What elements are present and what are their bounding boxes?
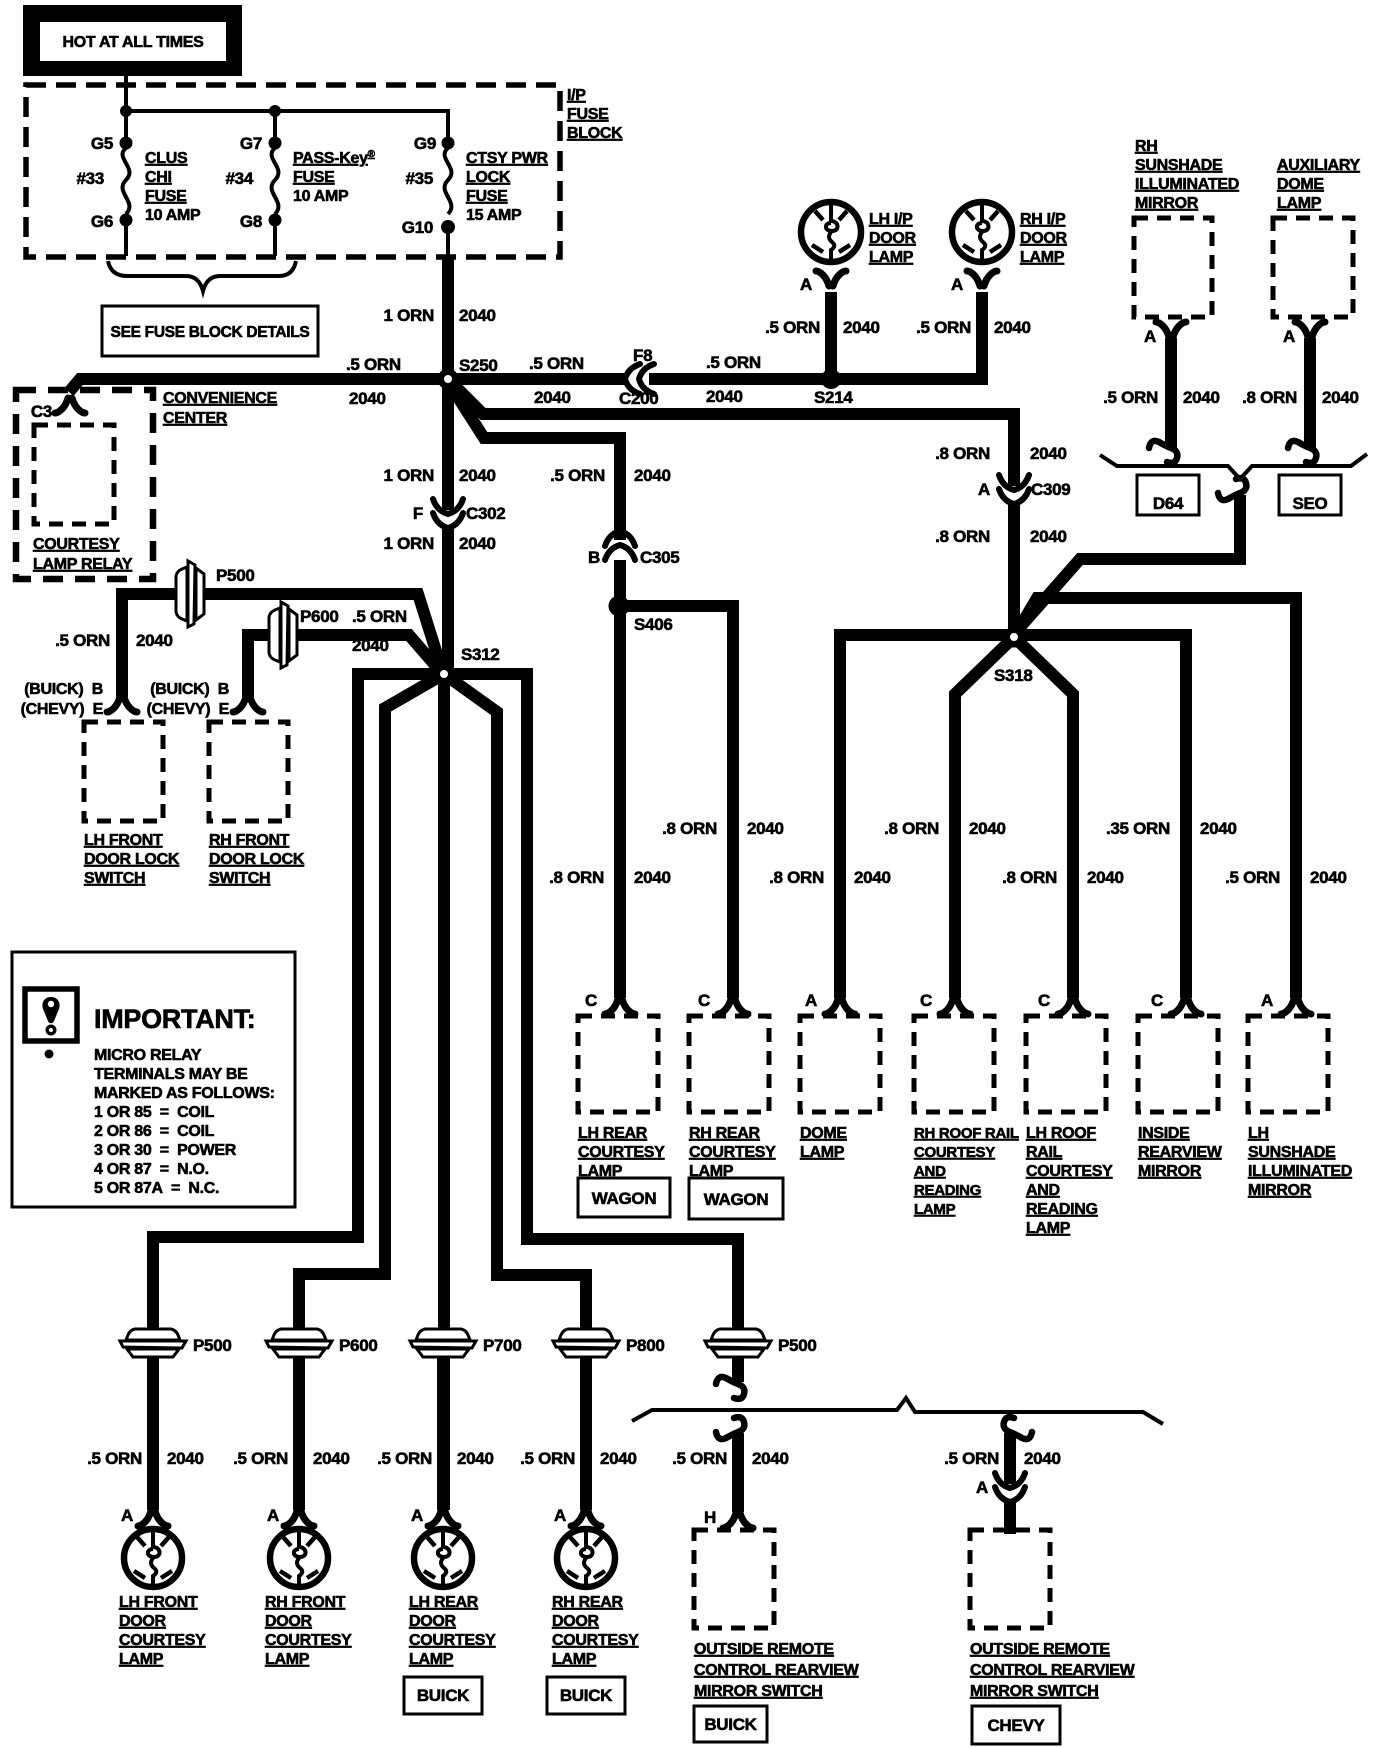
label OUTSIDE REMOTE CONTROL REARVIEW MIRROR SWITCH (BUICK) [694,1641,860,1700]
pass-through P500 (courtesy feeder) [120,1329,186,1357]
svg-text:2040: 2040 [854,868,891,887]
svg-text:2040: 2040 [752,1449,789,1468]
svg-text:2040: 2040 [313,1449,350,1468]
WAGON tag (LH rear lamp) [578,1178,670,1217]
svg-text:C302: C302 [466,504,505,523]
svg-text:RAIL: RAIL [1026,1144,1063,1161]
svg-text:LAMP: LAMP [119,1651,164,1668]
svg-text:.8 ORN: .8 ORN [769,868,824,887]
svg-text:IMPORTANT:: IMPORTANT: [94,1004,255,1034]
svg-text:10 AMP: 10 AMP [145,207,201,224]
svg-text:C: C [698,991,710,1010]
BUICK tag (RH rear door courtesy lamp) [547,1677,625,1714]
svg-text:INSIDE: INSIDE [1138,1125,1190,1142]
bus wire inside fuse block [126,111,448,137]
svg-text:(CHEVY) E: (CHEVY) E [147,701,230,718]
dome lamp box [800,1016,880,1112]
wire S214 up to LH I/P door lamp [825,292,837,379]
svg-text:FUSE: FUSE [466,188,508,205]
svg-text:A: A [805,991,817,1010]
svg-text:(BUICK) B: (BUICK) B [24,681,103,698]
svg-text:SWITCH: SWITCH [84,870,145,887]
IMPORTANT micro relay note box [12,952,295,1207]
svg-text:2 OR 86 = COIL: 2 OR 86 = COIL [94,1123,215,1140]
svg-text:.5 ORN: .5 ORN [706,353,761,372]
label LH sunshade illuminated mirror [1248,1125,1352,1199]
wire to connector of CHEVY mirror switch [1004,1433,1016,1484]
LH rear courtesy lamp box [578,1016,658,1112]
svg-text:A: A [800,275,812,294]
connector pin A of LH rear door courtesy lamp [428,1511,458,1526]
wire S250 to C302 [442,384,454,510]
LH sunshade illuminated mirror box [1248,1016,1328,1112]
auxiliary dome lamp option box [1273,218,1353,317]
label LH front door courtesy lamp text [119,1594,206,1668]
svg-text:COURTESY: COURTESY [119,1632,206,1649]
wire aux dome lamp to SEO brace [1304,338,1316,448]
junction on bus at fuse #33 [120,105,132,117]
svg-text:G8: G8 [240,212,262,231]
svg-text:LAMP: LAMP [409,1651,454,1668]
svg-text:A: A [267,1506,279,1525]
wire S312 to P500 courtesy feeder [153,674,444,1510]
label RH rear door courtesy lamp text [552,1594,639,1668]
svg-text:S214: S214 [814,388,853,407]
svg-text:.8 ORN: .8 ORN [935,444,990,463]
svg-text:.5 ORN: .5 ORN [1225,868,1280,887]
svg-text:2040: 2040 [349,389,386,408]
label I/P FUSE BLOCK [567,87,623,142]
svg-text:LH FRONT: LH FRONT [119,1594,198,1611]
svg-text:LAMP: LAMP [689,1163,734,1180]
svg-text:F: F [413,504,423,523]
connector pin A of RH rear door courtesy lamp [571,1511,601,1526]
svg-text:REARVIEW: REARVIEW [1138,1144,1223,1161]
svg-text:2040: 2040 [136,631,173,650]
svg-text:.8 ORN: .8 ORN [1242,388,1297,407]
pass-through P800 (courtesy feeder) [553,1329,619,1357]
connector pin A of RH sunshade mirror [1156,322,1186,337]
svg-text:S318: S318 [994,666,1033,685]
svg-text:.5 ORN: .5 ORN [672,1449,727,1468]
hook above option brace (BUICK switch) [716,1377,744,1399]
svg-text:DOOR: DOOR [1020,230,1068,247]
connector A of CHEVY mirror switch [995,1473,1025,1502]
fuse #35 element [445,148,452,214]
LH I/P door lamp [801,202,861,262]
option tag SEO [1279,475,1341,515]
wire C302 to S312 [442,527,454,668]
svg-text:DOME: DOME [800,1125,847,1142]
label RH I/P DOOR LAMP [1020,211,1068,266]
svg-text:SEE FUSE BLOCK DETAILS: SEE FUSE BLOCK DETAILS [111,324,310,341]
pass-through P700 (courtesy feeder) [410,1329,476,1357]
svg-text:BUICK: BUICK [704,1715,757,1734]
wire S406 to LH rear courtesy lamp [614,612,626,998]
svg-text:AND: AND [1026,1182,1060,1199]
svg-text:COURTESY: COURTESY [689,1144,776,1161]
svg-text:2040: 2040 [1183,388,1220,407]
svg-text:OUTSIDE REMOTE: OUTSIDE REMOTE [694,1641,834,1658]
pin dot G6 [120,214,133,227]
label LH FRONT DOOR LOCK SWITCH [84,832,180,887]
pin dot G5 [120,137,133,150]
svg-text:MICRO RELAY: MICRO RELAY [94,1047,202,1064]
hook at option feed top [1218,478,1246,500]
svg-text:LAMP RELAY: LAMP RELAY [33,556,133,573]
svg-text:2040: 2040 [167,1449,204,1468]
svg-text:2040: 2040 [1200,819,1237,838]
pass-through P600 (courtesy feeder) [266,1329,332,1357]
svg-text:.5 ORN: .5 ORN [346,355,401,374]
label dome lamp [800,1125,847,1161]
svg-text:DOOR: DOOR [119,1613,167,1630]
wire S318 to LH roof rail lamp [1014,637,1073,998]
svg-text:BLOCK: BLOCK [567,125,623,142]
thin wire G10 to fuse block border [446,227,450,256]
pass-through P500 (mirror switch feeder) [705,1329,771,1357]
connector pin B/E of RH front door lock switch [233,697,263,712]
svg-text:G9: G9 [414,134,436,153]
connector pin B/E of LH front door lock switch [107,697,137,712]
svg-text:CENTER: CENTER [163,410,228,427]
pass-through P500 (lock branch) [176,561,204,627]
wire to BUICK mirror switch [732,1433,744,1512]
svg-text:FUSE: FUSE [293,169,335,186]
pin label (BUICK) B (CHEVY) E - RH [147,681,230,718]
svg-text:P500: P500 [216,566,255,585]
connector pin A of RH I/P door lamp [967,271,997,286]
svg-text:DOOR: DOOR [552,1613,600,1630]
svg-text:P700: P700 [483,1336,522,1355]
svg-text:PASS-Key®: PASS-Key® [293,149,376,167]
svg-text:P500: P500 [193,1336,232,1355]
wire P500 to LH front door courtesy lamp [147,1358,159,1510]
HOT AT ALL TIMES power label [23,5,242,76]
svg-text:COURTESY: COURTESY [914,1144,995,1161]
svg-text:CONTROL REARVIEW: CONTROL REARVIEW [970,1662,1136,1679]
svg-text:C: C [1151,991,1163,1010]
svg-text:.5 ORN: .5 ORN [520,1449,575,1468]
svg-text:15 AMP: 15 AMP [466,207,522,224]
label fuse #34 PASS-Key FUSE 10 AMP [293,149,376,205]
splice S312 [434,664,455,685]
connector pin C of LH roof rail courtesy and reading lamp [1058,999,1088,1014]
CHEVY outside remote control rearview mirror switch box [970,1530,1050,1628]
wire below fuse #34 [273,226,277,256]
label inside rearview mirror [1138,1125,1223,1180]
svg-text:C: C [585,991,597,1010]
connector pin A of LH I/P door lamp [816,271,846,286]
wire from hot feed to fuse bus [124,76,128,111]
LH roof rail courtesy and reading lamp box [1026,1016,1106,1112]
I/P fuse block outline [26,85,560,257]
label LH rear courtesy lamp [578,1125,665,1180]
svg-text:P500: P500 [778,1336,817,1355]
svg-text:COURTESY: COURTESY [265,1632,352,1649]
wire S250 to courtesy lamp relay [69,379,448,392]
svg-text:.5 ORN: .5 ORN [916,318,971,337]
svg-text:.5 ORN: .5 ORN [529,354,584,373]
svg-text:A: A [976,1478,988,1497]
wire S406 to RH rear courtesy lamp [620,606,733,998]
svg-text:MIRROR: MIRROR [1248,1182,1312,1199]
pin dot G9 [442,137,455,150]
pin dot G10 [441,220,455,234]
splice S250 [438,369,459,390]
wire into CHEVY mirror switch [1004,1501,1016,1534]
svg-text:AND: AND [914,1163,946,1180]
svg-text:.5 ORN: .5 ORN [233,1449,288,1468]
svg-text:BUICK: BUICK [560,1686,613,1705]
label LH I/P DOOR LAMP [869,211,917,266]
wire P600 branch to S312 [248,635,441,697]
option brace (BUICK/CHEVY outside mirror) [632,1398,1163,1424]
svg-text:S312: S312 [461,645,500,664]
wire S318 to inside rearview mirror [1014,635,1186,998]
connector pin A of RH front door courtesy lamp [284,1511,314,1526]
svg-text:DOOR: DOOR [265,1613,313,1630]
svg-text:MIRROR: MIRROR [1135,195,1199,212]
label OUTSIDE REMOTE CONTROL REARVIEW MIRROR SWITCH (CHEVY) [970,1641,1136,1700]
svg-text:CTSY PWR: CTSY PWR [466,150,549,167]
svg-text:RH FRONT: RH FRONT [265,1594,346,1611]
svg-text:DOOR: DOOR [869,230,917,247]
WAGON tag (RH rear lamp) [689,1178,783,1219]
svg-text:DOOR LOCK: DOOR LOCK [209,851,305,868]
BUICK outside remote control rearview mirror switch box [694,1530,774,1628]
connector C3 fork at courtesy lamp relay [55,398,85,413]
wire S312 to P700 courtesy feeder [438,674,450,1510]
svg-text:1 OR 85 = COIL: 1 OR 85 = COIL [94,1104,215,1121]
connector pin A of LH sunshade illuminated mirror [1281,999,1311,1014]
LH front door lock switch box [84,722,163,821]
label fuse #35 CTSY PWR LOCK FUSE 15 AMP [466,150,549,224]
svg-text:.8 ORN: .8 ORN [1002,868,1057,887]
svg-text:#33: #33 [77,169,104,188]
inside rearview mirror box [1138,1016,1218,1112]
svg-text:P600: P600 [300,607,339,626]
svg-text:FUSE: FUSE [567,106,609,123]
svg-text:C3: C3 [31,402,52,421]
wire S250 to C309 [451,382,1014,486]
svg-text:LOCK: LOCK [466,169,511,186]
svg-text:2040: 2040 [1322,388,1359,407]
svg-text:LH REAR: LH REAR [409,1594,479,1611]
svg-text:2040: 2040 [459,466,496,485]
svg-text:LAMP: LAMP [1277,195,1322,212]
svg-text:LH I/P: LH I/P [869,211,913,228]
connector pin C of RH rear courtesy lamp [718,999,748,1014]
svg-text:LAMP: LAMP [1020,249,1065,266]
svg-text:C305: C305 [640,548,679,567]
label RH FRONT DOOR LOCK SWITCH [209,832,305,887]
pin dot G7 [269,137,282,150]
label CONVENIENCE CENTER [163,390,278,427]
pin dot G8 [269,214,282,227]
RH I/P door lamp [952,202,1012,262]
svg-text:2040: 2040 [1030,444,1067,463]
svg-text:.5 ORN: .5 ORN [944,1449,999,1468]
svg-text:.5 ORN: .5 ORN [765,318,820,337]
bus drop to fuse #34 [273,111,277,137]
svg-text:LAMP: LAMP [914,1201,956,1218]
svg-text:MIRROR SWITCH: MIRROR SWITCH [694,1683,823,1700]
wire S318 to LH sunshade mirror [1014,598,1296,998]
svg-text:(CHEVY) E: (CHEVY) E [21,701,104,718]
connector pin C of LH rear courtesy lamp [605,999,635,1014]
connector pin C of RH roof rail courtesy and reading lamp [940,999,970,1014]
svg-text:.8 ORN: .8 ORN [884,819,939,838]
CHEVY tag (mirror switch) [972,1706,1060,1744]
wire CTSY fuse to S250 [442,256,454,379]
svg-text:A: A [1144,327,1156,346]
brace pointing to SEE FUSE BLOCK DETAILS [108,261,296,291]
label RH roof rail courtesy and reading lamp [914,1125,1019,1218]
svg-text:DOME: DOME [1277,176,1324,193]
connector pin A of LH front door courtesy lamp [138,1511,168,1526]
svg-text:.5 ORN: .5 ORN [87,1449,142,1468]
convenience center outline [16,390,153,579]
svg-text:C: C [1038,991,1050,1010]
svg-text:COURTESY: COURTESY [578,1144,665,1161]
wire C305 to S406 [614,560,626,600]
svg-text:MARKED AS FOLLOWS:: MARKED AS FOLLOWS: [94,1085,275,1102]
svg-text:CONVENIENCE: CONVENIENCE [163,390,278,407]
wire S250 to C305 [450,385,620,540]
wire up to RH I/P door lamp [976,292,988,385]
svg-text:SUNSHADE: SUNSHADE [1248,1144,1336,1161]
svg-text:2040: 2040 [457,1449,494,1468]
svg-text:RH ROOF RAIL: RH ROOF RAIL [914,1125,1019,1142]
svg-text:C309: C309 [1031,480,1070,499]
svg-text:LH ROOF: LH ROOF [1026,1125,1096,1142]
svg-text:A: A [978,480,990,499]
splice S214 [821,369,841,389]
wire S318 to dome lamp [840,635,1014,998]
connector C309 [999,475,1029,504]
svg-text:S406: S406 [634,615,673,634]
svg-text:RH: RH [1135,138,1158,155]
svg-text:A: A [951,275,963,294]
svg-text:.35 ORN: .35 ORN [1106,819,1170,838]
svg-text:2040: 2040 [969,819,1006,838]
svg-text:2040: 2040 [706,387,743,406]
svg-text:WAGON: WAGON [592,1189,657,1208]
wire below fuse #33 [124,226,128,256]
svg-text:RH REAR: RH REAR [689,1125,761,1142]
splice S406 [609,596,630,617]
svg-text:.5 ORN: .5 ORN [377,1449,432,1468]
LH front door courtesy lamp [124,1529,182,1587]
wire P700 to LH rear door courtesy lamp [437,1358,449,1510]
svg-text:COURTESY: COURTESY [552,1632,639,1649]
svg-text:ILLUMINATED: ILLUMINATED [1248,1163,1352,1180]
svg-text:LAMP: LAMP [578,1163,623,1180]
wire C309 to S318 [1008,503,1020,632]
svg-text:LAMP: LAMP [265,1651,310,1668]
connector C200 (F8) [625,364,654,394]
note box SEE FUSE BLOCK DETAILS [102,306,318,356]
svg-text:.5 ORN: .5 ORN [1103,388,1158,407]
courtesy lamp relay box [34,425,114,524]
svg-text:(BUICK) B: (BUICK) B [150,681,229,698]
svg-text:F8: F8 [633,346,652,365]
label AUXILIARY DOME LAMP [1277,157,1361,212]
svg-text:CONTROL REARVIEW: CONTROL REARVIEW [694,1662,860,1679]
svg-text:READING: READING [914,1182,981,1199]
svg-text:2040: 2040 [459,534,496,553]
svg-text:A: A [1283,327,1295,346]
svg-text:2040: 2040 [1030,527,1067,546]
wire S312 to P600 courtesy feeder [299,674,444,1510]
svg-text:4 OR 87 = N.O.: 4 OR 87 = N.O. [94,1161,209,1178]
label LH roof rail courtesy and reading lamp [1026,1125,1113,1237]
svg-text:A: A [1261,991,1273,1010]
hook at RH sunshade wire end [1149,441,1177,463]
wire RH sunshade mirror to D64 brace [1165,338,1177,448]
svg-text:G5: G5 [91,134,113,153]
wire P800 to RH rear door courtesy lamp [580,1358,592,1510]
option tag D64 [1137,475,1199,515]
label LH rear door courtesy lamp text [409,1594,496,1668]
svg-text:CHI: CHI [145,169,172,186]
pin label (BUICK) B (CHEVY) E - LH [21,681,104,718]
svg-text:LAMP: LAMP [1026,1220,1071,1237]
svg-text:WAGON: WAGON [704,1190,769,1209]
wire S318 to RH roof rail lamp [955,637,1014,998]
connector pin A of dome lamp [825,999,855,1014]
RH rear courtesy lamp box [689,1016,769,1112]
svg-text:.8 ORN: .8 ORN [662,819,717,838]
fuse #33 element [123,148,130,214]
svg-text:10 AMP: 10 AMP [293,188,349,205]
svg-text:2040: 2040 [534,388,571,407]
connector pin A of auxiliary dome lamp [1295,322,1325,337]
svg-text:COURTESY: COURTESY [409,1632,496,1649]
svg-text:A: A [411,1506,423,1525]
connector pin C of inside rearview mirror [1171,999,1201,1014]
svg-text:2040: 2040 [1024,1449,1061,1468]
wire P600 to RH front door courtesy lamp [293,1358,305,1510]
svg-text:2040: 2040 [600,1449,637,1468]
RH sunshade illuminated mirror option box [1134,218,1212,317]
svg-text:COURTESY: COURTESY [1026,1163,1113,1180]
svg-text:.8 ORN: .8 ORN [549,868,604,887]
svg-text:LH REAR: LH REAR [578,1125,648,1142]
svg-text:MIRROR: MIRROR [1138,1163,1202,1180]
svg-text:TERMINALS MAY BE: TERMINALS MAY BE [94,1066,248,1083]
svg-text:2040: 2040 [994,318,1031,337]
RH front door courtesy lamp [270,1529,328,1587]
label COURTESY LAMP RELAY [33,536,133,573]
svg-text:SEO: SEO [1292,494,1327,513]
svg-text:2040: 2040 [459,306,496,325]
wire S312 to rear P500 feeder [444,674,738,1382]
svg-text:LAMP: LAMP [552,1651,597,1668]
label RH front door courtesy lamp text [265,1594,352,1668]
svg-text:RH FRONT: RH FRONT [209,832,290,849]
svg-text:G7: G7 [240,134,262,153]
svg-text:C: C [920,991,932,1010]
svg-text:FUSE: FUSE [145,188,187,205]
svg-text:.5 ORN: .5 ORN [352,607,407,626]
svg-text:2040: 2040 [747,819,784,838]
svg-text:DOOR LOCK: DOOR LOCK [84,851,180,868]
connector C302 [433,499,463,528]
svg-text:D64: D64 [1153,494,1184,513]
svg-text:2040: 2040 [843,318,880,337]
